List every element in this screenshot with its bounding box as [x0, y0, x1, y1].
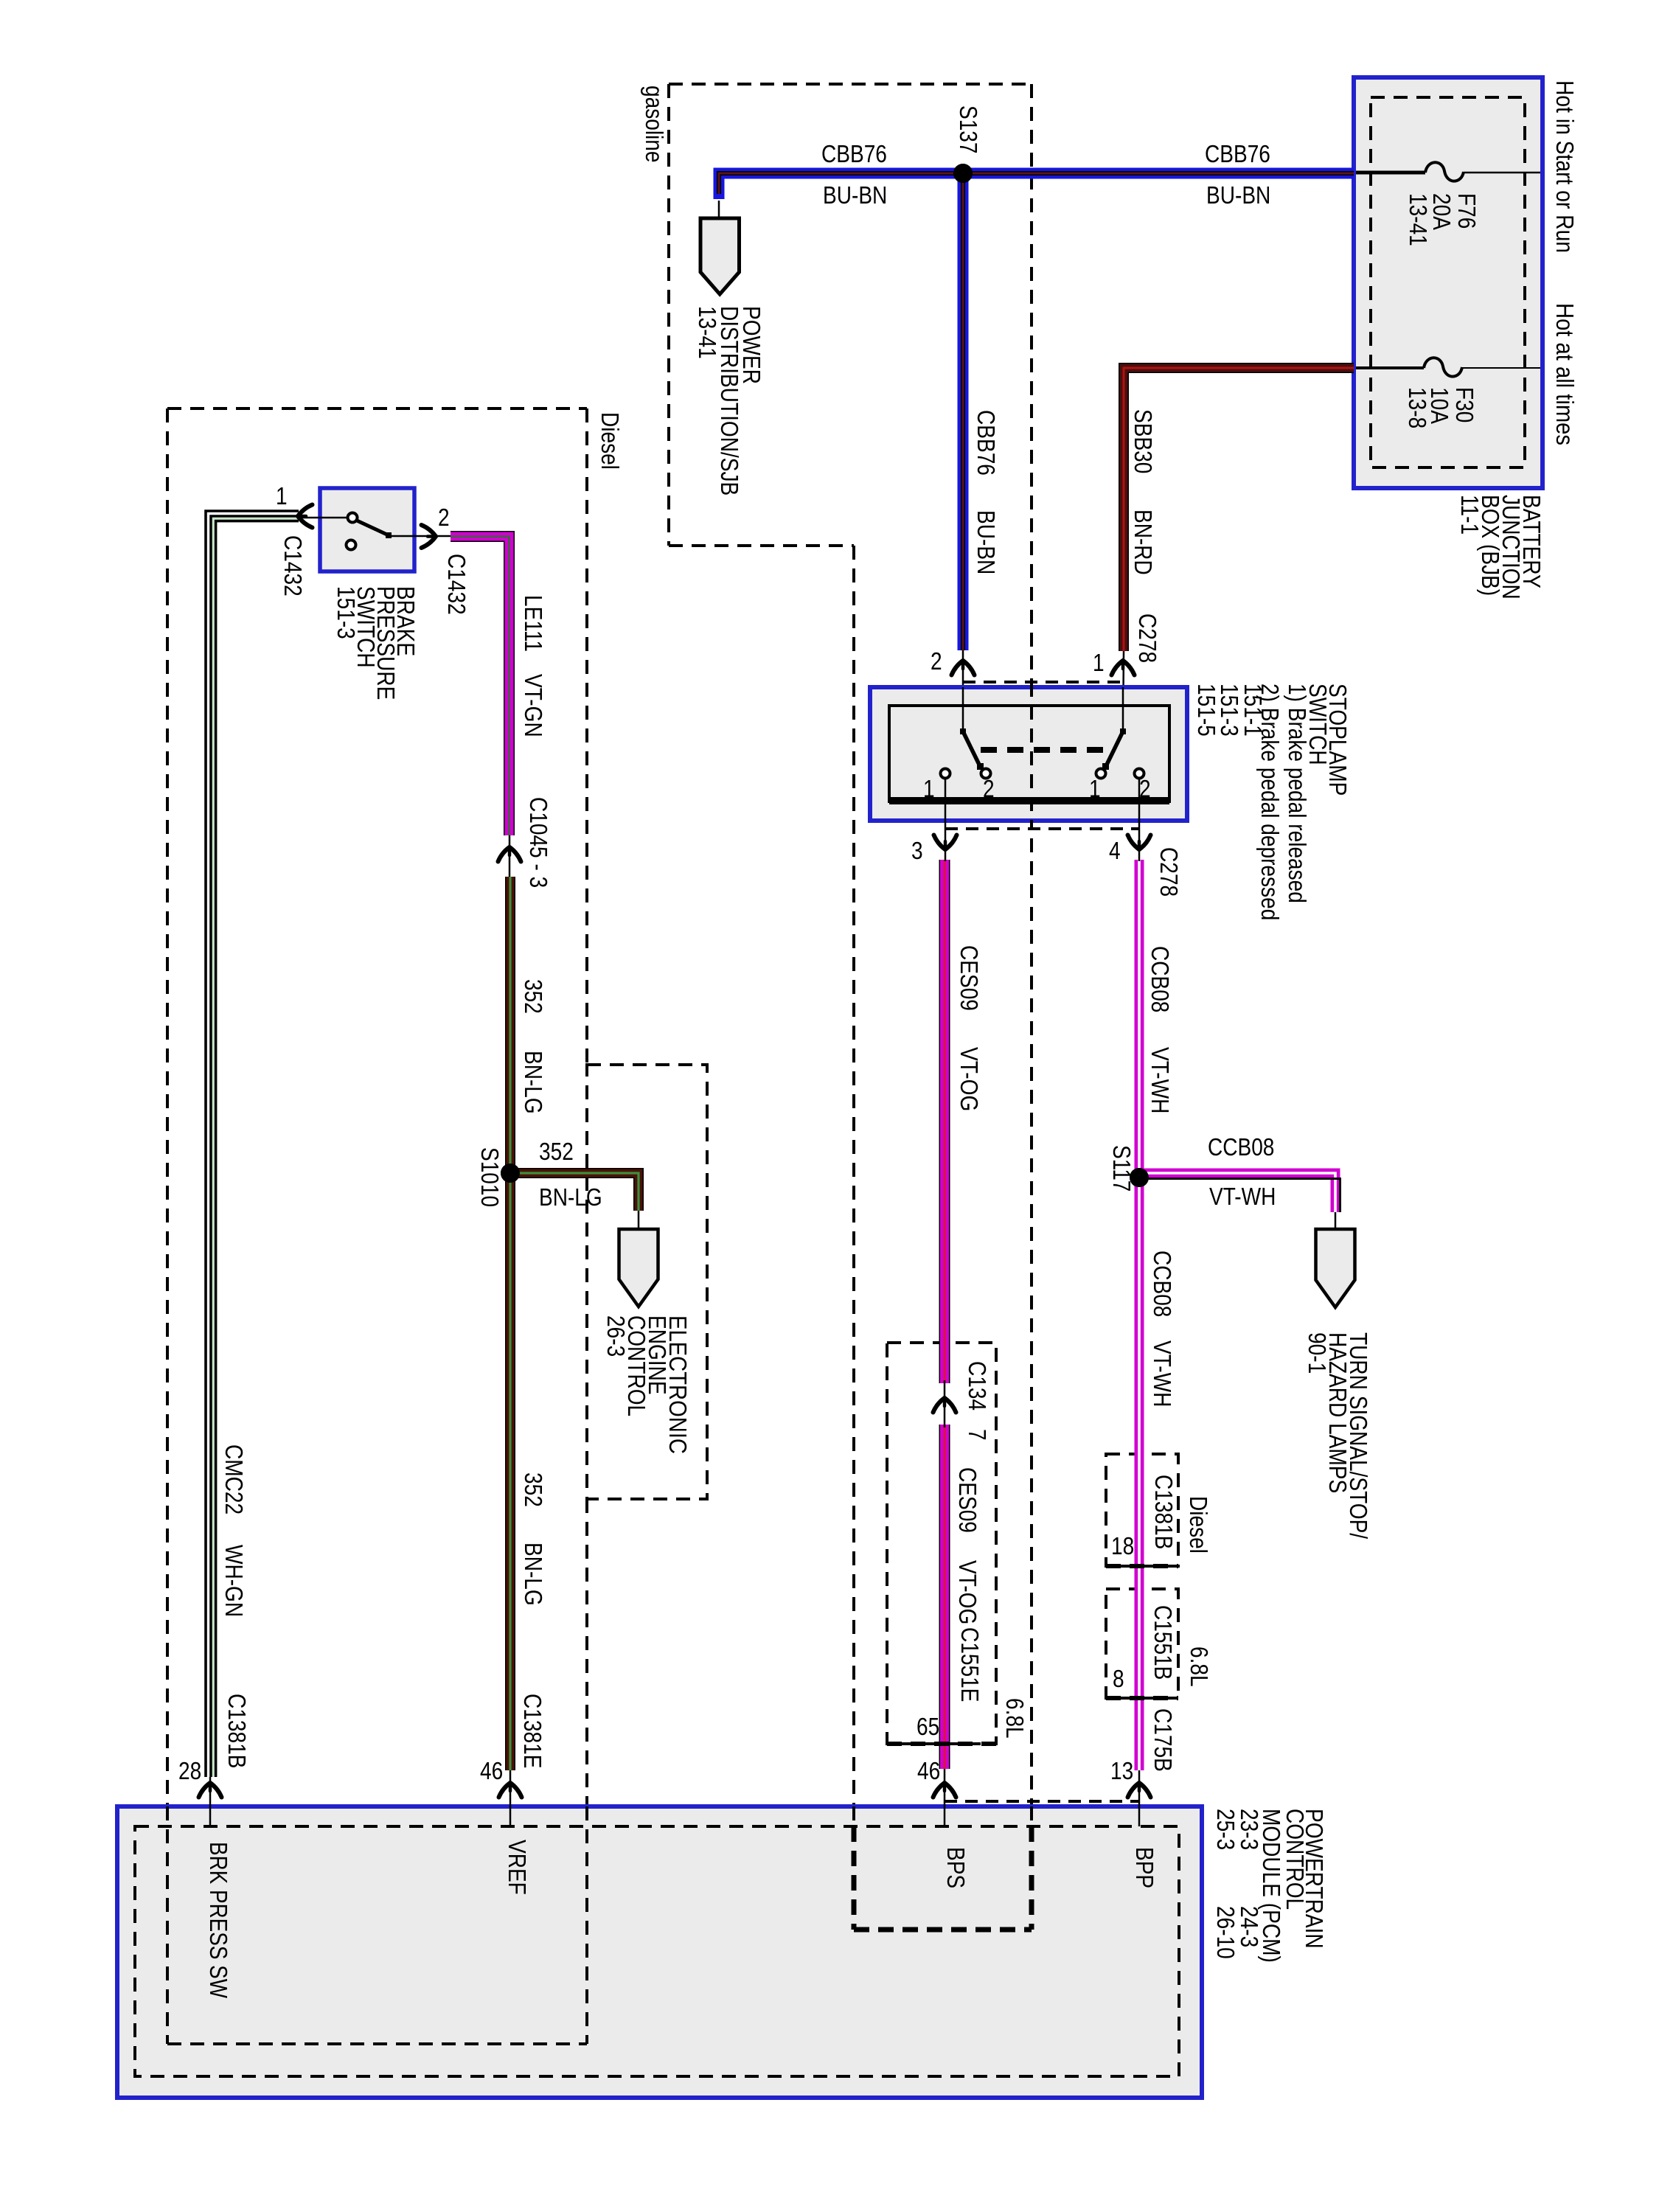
svg-text:CES09: CES09	[956, 945, 983, 1011]
svg-text:CCB08: CCB08	[1147, 946, 1174, 1012]
svg-text:26-3: 26-3	[602, 1315, 630, 1357]
connector C175B dashed link (pins 46-13)	[945, 1800, 1139, 1803]
Diesel C1381B box bold bottom	[1106, 1564, 1178, 1568]
svg-text:WH-GN: WH-GN	[220, 1545, 248, 1617]
connector TURN SIGNAL/STOP/HAZARD LAMPS (pentagon)	[1316, 1229, 1355, 1307]
svg-text:S137: S137	[955, 105, 982, 154]
switch 1 pivot	[960, 728, 966, 734]
svg-text:352: 352	[539, 1138, 574, 1165]
svg-text:18: 18	[1111, 1532, 1134, 1559]
fuse F30 10A	[1356, 358, 1540, 376]
svg-text:25-3: 25-3	[1212, 1809, 1239, 1850]
svg-text:C1551B: C1551B	[1150, 1605, 1177, 1680]
BJB inner dashed box	[1371, 97, 1525, 467]
pin line through C134	[944, 1380, 946, 1427]
svg-text:CES09: CES09	[954, 1467, 981, 1533]
connector arrow C278 pin 1	[1112, 661, 1135, 675]
Diesel variant region (dashed boundary)	[167, 408, 587, 2044]
svg-text:S117: S117	[1108, 1145, 1135, 1192]
fuse F76 20A	[1356, 162, 1540, 181]
stoplamp switch inner box thick bottom	[889, 797, 1169, 804]
svg-text:C278: C278	[1134, 613, 1161, 663]
svg-text:CBB76: CBB76	[1205, 140, 1270, 167]
connector POWER DISTRIBUTION/SJB (pentagon)	[700, 218, 740, 294]
connector arrow C278 pin 3	[934, 835, 957, 850]
wire SBB30 BN-RD (BJB F30 to stoplamp switch pin 1)	[1124, 368, 1354, 651]
svg-text:BN-LG: BN-LG	[539, 1183, 602, 1211]
svg-text:26-10: 26-10	[1212, 1906, 1239, 1959]
switch 1 contact 1	[941, 769, 950, 779]
wire CMC22 WH-GN green stripe	[213, 518, 299, 1777]
connector arrow PCM pin 46 BPS	[933, 1783, 956, 1798]
connector C278 dashed link (pins 3-4)	[945, 827, 1139, 830]
svg-text:Hot in Start or Run: Hot in Start or Run	[1551, 80, 1579, 253]
svg-text:352: 352	[520, 1472, 547, 1507]
svg-text:VT-OG: VT-OG	[954, 1560, 981, 1624]
pin line through C1045	[509, 835, 511, 879]
svg-text:1: 1	[1093, 649, 1105, 676]
connector arrow C134	[933, 1398, 956, 1413]
pin line stoplamp pin 4	[1138, 779, 1141, 861]
svg-text:C1381B: C1381B	[1150, 1475, 1178, 1549]
svg-text:BN-RD: BN-RD	[1130, 509, 1157, 575]
svg-text:CCB08: CCB08	[1149, 1251, 1176, 1317]
PCM inner dashed box	[135, 1826, 1179, 2076]
connector arrow C278 pin 4	[1128, 835, 1151, 850]
node S137 dot overlay	[953, 164, 973, 183]
brake pressure switch blade	[357, 521, 389, 535]
svg-text:BU-BN: BU-BN	[1206, 181, 1270, 209]
pin line brake switch pin 2	[390, 535, 451, 538]
connector arrow C278 pin 2	[952, 661, 975, 675]
wire overlay: gasoline corridor dashes over stoplamp box	[1030, 683, 1033, 829]
C134 box bold bottom	[887, 1742, 996, 1746]
switch 1 blade end dot	[977, 763, 984, 770]
mechanical link dashed (switch blades)	[981, 747, 1103, 753]
svg-text:6.8L: 6.8L	[1186, 1646, 1213, 1687]
svg-text:2: 2	[983, 775, 995, 802]
connector arrow PCM pin 13 BPP	[1128, 1783, 1151, 1798]
stoplamp switch box	[870, 687, 1187, 821]
switch 2 blade	[1106, 731, 1123, 766]
pin line PCM 46 (BPS)	[944, 1769, 946, 1826]
connector arrow PCM pin 46 VREF	[499, 1783, 522, 1798]
wire 352 BN-LG (C1045 down to S1010 and PCM pin 46)	[505, 877, 515, 1770]
pin line stoplamp pin 3	[945, 779, 947, 861]
wire CCB08 VT-WH branch (S117 to turn signal lamps)	[1139, 1173, 1340, 1212]
svg-text:2: 2	[931, 647, 942, 675]
stoplamp switch inner box	[889, 706, 1169, 801]
gasoline variant region (dashed boundary)	[669, 84, 1032, 1930]
svg-text:151-5: 151-5	[1193, 684, 1220, 737]
svg-text:90-1: 90-1	[1304, 1332, 1331, 1374]
svg-text:CBB76: CBB76	[821, 140, 887, 167]
brake pressure switch box	[320, 488, 414, 571]
node S117 junction dot	[1130, 1168, 1149, 1187]
svg-text:C134: C134	[964, 1361, 991, 1411]
svg-text:VT-WH: VT-WH	[1209, 1183, 1276, 1210]
wire CBB76 BU-BN horizontal (BJB F76 to S137 to power distribution)	[719, 173, 1354, 199]
connector arrow C1045	[498, 847, 521, 862]
wire CCB08 VT-WH (stoplamp pin 4 down to PCM pin 13)	[1135, 860, 1144, 1770]
svg-text:F30: F30	[1451, 387, 1478, 422]
svg-text:28: 28	[178, 1757, 201, 1784]
brake pressure switch blade end dot	[386, 532, 392, 538]
wire LE111 VT-GN (brake switch pin 2 to C1045)	[451, 537, 509, 836]
svg-text:VT-OG: VT-OG	[956, 1047, 983, 1111]
connector C134 dashed box	[887, 1343, 996, 1744]
connector C278 dashed link (pins 2-1)	[963, 681, 1122, 684]
switch 2 contact 1	[1096, 769, 1106, 779]
svg-text:gasoline: gasoline	[641, 86, 668, 163]
Diesel region dashed box inside PCM	[167, 1806, 587, 2044]
pin line brake switch pin 1	[299, 517, 347, 519]
pin line PCM 28	[209, 1777, 212, 1826]
pin line PCM 46 (VREF)	[509, 1770, 512, 1826]
svg-text:13-41: 13-41	[694, 306, 721, 359]
svg-text:11-1: 11-1	[1456, 495, 1484, 535]
connector arrow PCM pin 28	[199, 1783, 222, 1798]
svg-text:151-3: 151-3	[333, 586, 360, 639]
svg-text:13: 13	[1110, 1757, 1133, 1784]
connector ELECTRONIC ENGINE CONTROL (pentagon)	[619, 1229, 658, 1307]
svg-text:6.8L: 6.8L	[1001, 1698, 1029, 1739]
node S137 junction dot	[953, 164, 973, 183]
wire 352 BN-LG branch (S1010 to electronic engine control)	[510, 1173, 639, 1211]
svg-text:1: 1	[923, 775, 935, 802]
svg-text:3: 3	[911, 837, 923, 864]
svg-text:CCB08: CCB08	[1208, 1133, 1274, 1161]
svg-text:C1432: C1432	[443, 554, 470, 615]
pin line stoplamp pin 1	[1123, 651, 1124, 734]
svg-text:BPP: BPP	[1131, 1847, 1158, 1888]
connector arrow C1432 pin 1	[298, 505, 313, 528]
svg-text:BPS: BPS	[942, 1847, 970, 1888]
svg-text:C1045 - 3: C1045 - 3	[525, 797, 552, 888]
node S1010 junction dot	[501, 1164, 520, 1183]
svg-text:BN-LG: BN-LG	[520, 1051, 547, 1114]
connector arrow C1432 pin 2	[422, 525, 437, 548]
svg-text:Diesel: Diesel	[1185, 1496, 1212, 1554]
svg-text:BRK PRESS SW: BRK PRESS SW	[205, 1842, 232, 1999]
ELECTRONIC ENGINE CONTROL dashed box	[587, 1065, 707, 1499]
svg-text:13-8: 13-8	[1404, 387, 1431, 428]
switch 2 contact 2	[1135, 769, 1144, 779]
svg-text:352: 352	[520, 979, 547, 1014]
switch 2 pivot	[1120, 728, 1126, 734]
Diesel C1381B dashed box on BPP wire	[1106, 1454, 1178, 1566]
svg-text:8: 8	[1113, 1665, 1124, 1692]
svg-text:C1551E: C1551E	[956, 1627, 984, 1702]
svg-text:BU-BN: BU-BN	[973, 510, 1000, 574]
svg-text:VT-GN: VT-GN	[520, 674, 547, 737]
svg-text:C1381B: C1381B	[223, 1694, 251, 1768]
svg-text:SBB30: SBB30	[1130, 409, 1157, 473]
svg-text:BU-BN: BU-BN	[823, 181, 887, 209]
node S117 dot overlay	[1130, 1168, 1149, 1187]
svg-text:S1010: S1010	[476, 1147, 504, 1207]
svg-text:46: 46	[480, 1757, 503, 1784]
wire CES09 VT-OG (C134 down to PCM pin 46)	[939, 1425, 950, 1769]
pin line stoplamp pin 2 inside box	[962, 687, 964, 731]
svg-text:F76: F76	[1453, 193, 1481, 229]
svg-text:1) Brake pedal released: 1) Brake pedal released	[1284, 684, 1311, 903]
switch 1 blade	[963, 731, 980, 766]
pin line PCM 13 (BPP)	[1138, 1770, 1141, 1826]
pin line stoplamp pin 1 inside box	[1122, 687, 1124, 731]
svg-text:2: 2	[438, 504, 450, 531]
svg-text:Hot at all times: Hot at all times	[1551, 303, 1579, 445]
wire stub to POWER DISTRIBUTION connector	[718, 201, 720, 220]
switch 1 contact 2	[981, 769, 991, 779]
svg-text:C278: C278	[1155, 847, 1183, 897]
svg-text:1: 1	[276, 482, 288, 509]
svg-text:C1432: C1432	[279, 535, 307, 597]
svg-text:13-41: 13-41	[1405, 193, 1432, 246]
svg-text:7: 7	[964, 1429, 991, 1441]
wire stub to TURN SIGNAL connector	[1335, 1212, 1337, 1231]
svg-text:2: 2	[1139, 775, 1151, 802]
wire CBB76 BU-BN vertical (S137 down to stoplamp switch pin 2)	[958, 173, 969, 650]
brake pressure switch contact 1	[348, 513, 358, 523]
wire stub to ELECTRONIC ENGINE CONTROL connector	[638, 1211, 640, 1231]
svg-text:1: 1	[1089, 775, 1101, 802]
switch 2 blade end dot	[1102, 763, 1109, 770]
svg-text:CBB76: CBB76	[973, 410, 1000, 476]
svg-text:C175B: C175B	[1150, 1708, 1177, 1772]
svg-text:CMC22: CMC22	[220, 1444, 248, 1514]
node S1010 dot overlay	[501, 1164, 520, 1183]
wire overlay: gasoline corridor inside PCM (bold dashed)	[854, 1806, 1032, 1930]
svg-text:VT-WH: VT-WH	[1149, 1340, 1176, 1407]
battery junction box BJB	[1354, 77, 1543, 488]
svg-text:65: 65	[917, 1713, 939, 1740]
svg-text:VREF: VREF	[504, 1840, 531, 1895]
svg-text:BN-LG: BN-LG	[520, 1543, 547, 1606]
svg-text:VT-WH: VT-WH	[1147, 1047, 1174, 1113]
svg-text:4: 4	[1109, 837, 1121, 864]
svg-text:Diesel: Diesel	[597, 412, 624, 470]
6.8L C1551B dashed box on BPP wire	[1106, 1589, 1178, 1698]
wire CES09 VT-OG (stoplamp pin 3 down to C134)	[939, 860, 950, 1383]
brake pressure switch contact 2	[347, 540, 356, 550]
wire CMC22 WH-GN (brake switch pin 1 to PCM pin 28, white wire with green stripe)	[206, 511, 299, 1777]
svg-text:LE111: LE111	[520, 595, 547, 652]
pin line stoplamp pin 2	[962, 650, 964, 734]
powertrain control module PCM box	[117, 1806, 1202, 2098]
svg-text:46: 46	[917, 1757, 940, 1784]
6.8L C1551B box bold bottom	[1106, 1696, 1178, 1700]
svg-text:C1381E: C1381E	[519, 1694, 546, 1768]
